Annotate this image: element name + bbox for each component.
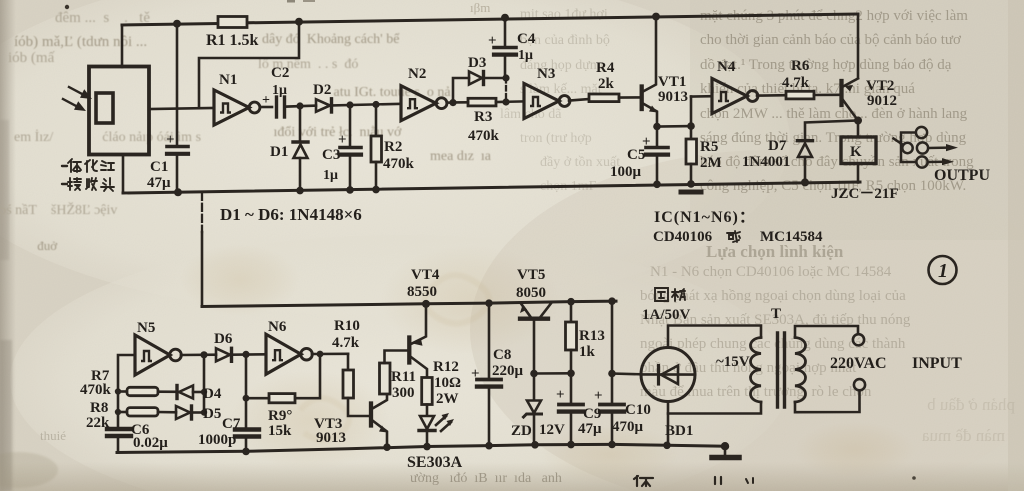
svg-text:đuở: đuở [34, 238, 58, 253]
svg-text:chọn 2MW ... thě làm cho... đè: chọn 2MW ... thě làm cho... đèn ở hành l… [700, 106, 968, 122]
svg-text:màn đề mua: màn đề mua [921, 426, 1005, 445]
svg-text:1A/50V: 1A/50V [642, 307, 691, 323]
svg-text:22k: 22k [86, 415, 110, 431]
svg-text:R11: R11 [391, 369, 416, 385]
svg-text:R8: R8 [90, 400, 108, 416]
svg-text:9013: 9013 [316, 430, 346, 446]
svg-text:N1: N1 [219, 72, 237, 88]
svg-text:tron (trư hợp: tron (trư hợp [520, 131, 592, 146]
svg-text:15k: 15k [268, 423, 292, 439]
svg-text:9013: 9013 [658, 89, 688, 105]
svg-text:SE303A: SE303A [407, 454, 463, 471]
svg-text:+: + [642, 134, 651, 150]
svg-text:R3: R3 [474, 109, 492, 125]
svg-text:1k: 1k [579, 344, 596, 360]
svg-text:ɔś nầT šHŽ8Ľ ɔệiv: ɔś nầT šHŽ8Ľ ɔệiv [0, 201, 117, 218]
svg-text:C1: C1 [150, 159, 168, 175]
svg-text:dây đó Khoảng cách' bể: dây đó Khoảng cách' bể [262, 32, 400, 47]
svg-text:R13: R13 [579, 328, 605, 344]
svg-text:9012: 9012 [867, 93, 897, 109]
svg-text:C4: C4 [517, 31, 536, 47]
svg-text:1μ: 1μ [518, 48, 533, 63]
svg-text:2M: 2M [700, 155, 722, 171]
svg-text:47μ: 47μ [578, 421, 602, 437]
svg-text:BD1: BD1 [665, 423, 693, 439]
svg-text:cho thời gian cảnh báo của bộ: cho thời gian cảnh báo của bộ cảnh báo t… [700, 32, 962, 48]
svg-text:ường ıđó ıB ıır ıda anh: ường ıđó ıB ıır ıda anh [410, 471, 562, 486]
svg-text:220μ: 220μ [492, 363, 524, 379]
svg-text:4.7k: 4.7k [332, 335, 360, 351]
svg-text:1μ: 1μ [323, 168, 338, 183]
svg-text:47μ: 47μ [147, 175, 171, 191]
svg-text:D7: D7 [768, 138, 787, 154]
svg-text:8550: 8550 [407, 284, 437, 300]
svg-text:R5: R5 [700, 139, 718, 155]
svg-text:D4: D4 [203, 386, 222, 402]
svg-text:thuié: thuié [40, 428, 66, 443]
svg-text:+: + [166, 132, 175, 148]
svg-text:T: T [771, 306, 781, 322]
svg-text:D3: D3 [468, 55, 486, 71]
svg-text:C10: C10 [625, 402, 651, 418]
svg-text:OUTPU: OUTPU [934, 167, 990, 184]
svg-text:470k: 470k [383, 156, 415, 172]
svg-text:R9°: R9° [268, 408, 292, 424]
svg-text:+: + [262, 93, 270, 108]
svg-text:N1 - N6 chọn CD40106 loặc MC 1: N1 - N6 chọn CD40106 loặc MC 14584 [650, 264, 892, 280]
svg-text:VT5: VT5 [517, 267, 545, 283]
svg-text:dồ đạt.¹ Trong trường hợp dùng: dồ đạt.¹ Trong trường hợp dùng báo độ dạ [700, 57, 952, 73]
svg-text:+: + [488, 33, 497, 49]
svg-text:N4: N4 [717, 59, 736, 75]
svg-text:đầy ở tồn xuất: đầy ở tồn xuất [540, 155, 620, 170]
svg-text:VT4: VT4 [411, 267, 440, 283]
svg-text:VT1: VT1 [658, 74, 686, 90]
svg-text:R6: R6 [791, 58, 810, 74]
svg-text:INPUT: INPUT [912, 355, 962, 372]
svg-text:R4: R4 [596, 60, 615, 76]
svg-text:1N4001: 1N4001 [742, 154, 790, 170]
svg-text:ZD: ZD [511, 423, 532, 439]
svg-text:C3: C3 [322, 147, 340, 163]
svg-text:1: 1 [938, 260, 948, 282]
svg-text:N3: N3 [537, 66, 555, 82]
svg-text:220VAC: 220VAC [830, 355, 887, 372]
svg-text:C2: C2 [271, 65, 289, 81]
svg-text:N2: N2 [408, 66, 426, 82]
svg-text:N5: N5 [137, 320, 155, 336]
svg-text:CD40106: CD40106 [653, 229, 713, 245]
svg-text:D2: D2 [313, 82, 331, 98]
svg-text:D1: D1 [270, 144, 288, 160]
svg-text:íób) mǎ,Ľ (tdưn nôi ...: íób) mǎ,Ľ (tdưn nôi ... [14, 34, 173, 50]
svg-text:+: + [556, 387, 565, 403]
svg-text:C9: C9 [583, 406, 601, 422]
svg-text:MC14584: MC14584 [760, 229, 823, 245]
svg-text:ıβm: ıβm [470, 0, 490, 15]
svg-text:IC(N1~N6)：: IC(N1~N6)： [654, 209, 756, 226]
svg-text:2W: 2W [436, 391, 459, 407]
svg-text:R10: R10 [334, 318, 360, 334]
svg-text:iób (mấ: iób (mấ [8, 50, 56, 66]
svg-text:300: 300 [392, 385, 415, 401]
svg-text:1μ: 1μ [272, 83, 287, 98]
svg-text:10Ω: 10Ω [434, 375, 461, 391]
svg-text:K: K [850, 144, 862, 160]
svg-text:1000p: 1000p [198, 432, 236, 448]
svg-text:N6: N6 [268, 319, 287, 335]
svg-text:100μ: 100μ [610, 164, 642, 180]
svg-text:D6: D6 [214, 331, 233, 347]
svg-text:phản ở đầu b: phản ở đầu b [927, 395, 1015, 414]
svg-text:12V: 12V [539, 422, 565, 438]
svg-text:R12: R12 [433, 359, 459, 375]
svg-text:D1 ~ D6: 1N4148×6: D1 ~ D6: 1N4148×6 [220, 205, 362, 224]
svg-text:470k: 470k [80, 382, 112, 398]
svg-text:R2: R2 [384, 139, 402, 155]
svg-text:470k: 470k [468, 128, 500, 144]
svg-text:2k: 2k [598, 76, 615, 92]
svg-text:atu IGt. touue s o nả: atu IGt. touue s o nả [330, 85, 451, 100]
svg-text:~15V: ~15V [716, 354, 750, 370]
svg-text:VT2: VT2 [866, 78, 894, 94]
svg-text:+: + [594, 388, 603, 404]
svg-text:4.7k: 4.7k [782, 75, 810, 91]
svg-text:+: + [338, 132, 347, 148]
svg-text:C7: C7 [222, 416, 241, 432]
svg-text:C8: C8 [493, 347, 511, 363]
svg-text:470μ: 470μ [612, 419, 644, 435]
svg-text:mea dız ıa: mea dız ıa [430, 149, 492, 164]
svg-text:8050: 8050 [516, 285, 546, 301]
svg-text:JZC－21F: JZC－21F [831, 186, 899, 202]
svg-text:+: + [471, 366, 480, 382]
svg-text:R1 1.5k: R1 1.5k [206, 32, 259, 49]
svg-text:0.02μ: 0.02μ [133, 435, 168, 451]
svg-text:D5: D5 [203, 406, 221, 422]
